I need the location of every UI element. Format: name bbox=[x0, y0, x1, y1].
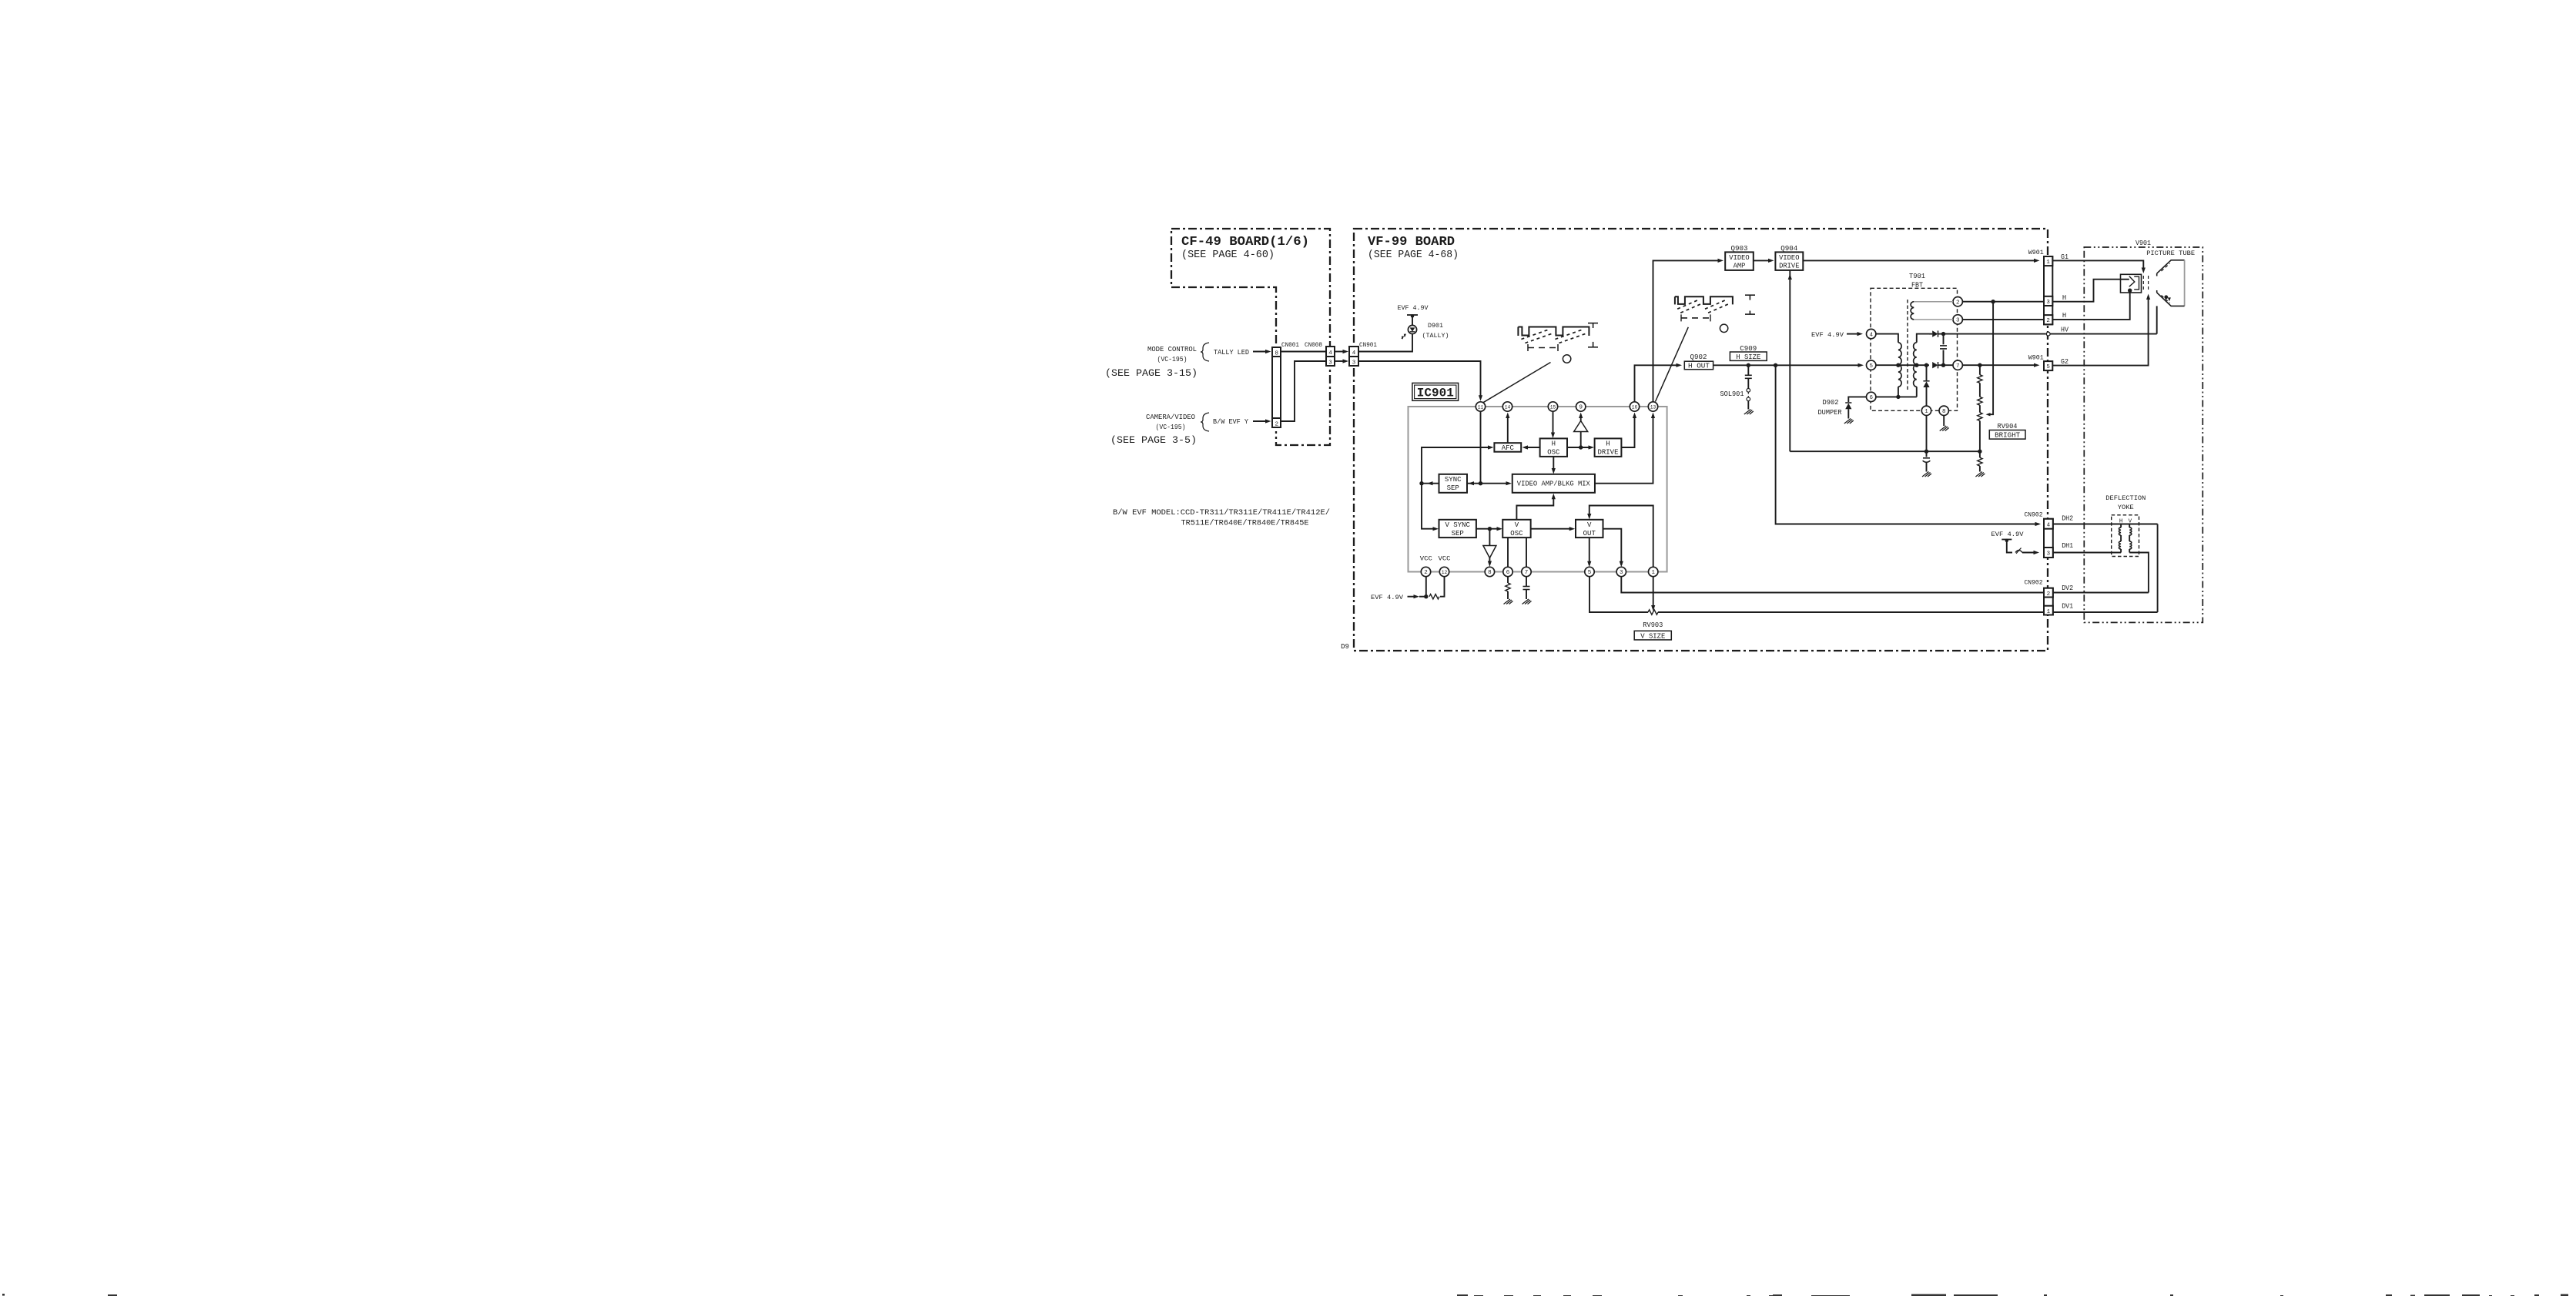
wire DH2 drop bbox=[1776, 365, 2039, 524]
diode D902 dumper bbox=[1845, 404, 1851, 410]
block Q902 H OUT bbox=[1684, 361, 1713, 370]
svg-text:H: H bbox=[2062, 312, 2066, 320]
svg-text:DEFLECTION: DEFLECTION bbox=[2105, 494, 2146, 502]
svg-text:W901: W901 bbox=[2028, 249, 2044, 256]
IC901 pin 11 (top) bbox=[1476, 402, 1485, 411]
block Q903 VIDEO AMP bbox=[1725, 252, 1754, 270]
wire winding2 top to HV diode bbox=[1917, 334, 1929, 343]
svg-text:(SEE PAGE 3-5): (SEE PAGE 3-5) bbox=[1110, 434, 1197, 446]
CRT cathode bbox=[2121, 279, 2129, 280]
wire H OSC to H DRIVE bbox=[1567, 447, 1591, 448]
wire pin5-pin7 line bbox=[1917, 364, 1929, 366]
svg-text:8: 8 bbox=[1275, 350, 1278, 357]
capacitor C (pin1) bbox=[1926, 451, 1928, 457]
wire H (pin2) from FBT pin3 bbox=[1962, 319, 2044, 320]
waveform sketch 1 amplitude bars bbox=[1588, 323, 1598, 324]
deflection yoke outline (dashed) bbox=[2112, 515, 2139, 557]
transformer pin 8 bbox=[1939, 406, 1948, 415]
svg-text:VIDEO AMP/BLKG MIX: VIDEO AMP/BLKG MIX bbox=[1517, 481, 1591, 488]
svg-text:V901: V901 bbox=[2136, 239, 2151, 247]
svg-text:2: 2 bbox=[1424, 570, 1428, 576]
CRT heater dashes bbox=[2142, 276, 2144, 292]
wire HV line bbox=[1944, 333, 2046, 335]
svg-text:(TALLY): (TALLY) bbox=[1422, 332, 1449, 340]
svg-text:DRIVE: DRIVE bbox=[1597, 449, 1618, 457]
connector W901 pin 5 bbox=[2044, 361, 2052, 370]
wire H OSC to AFC bbox=[1525, 447, 1540, 448]
wire winding2 bottom bbox=[1916, 387, 1918, 397]
svg-text:1: 1 bbox=[1924, 409, 1928, 415]
IC901 pin 14 (top) bbox=[1502, 402, 1512, 411]
wire G2 to CRT bbox=[2052, 296, 2148, 366]
svg-text:HV: HV bbox=[2061, 327, 2069, 334]
wire V OSC to pin 6 bbox=[1507, 537, 1509, 567]
connector W901 pin 1 bbox=[2044, 256, 2052, 266]
svg-text:3: 3 bbox=[1328, 360, 1332, 366]
svg-text:6: 6 bbox=[1869, 395, 1873, 401]
wire B/W EVF Y arrow bbox=[1253, 420, 1267, 422]
svg-text:(VC-195): (VC-195) bbox=[1157, 356, 1188, 363]
wire tap to winding 2 bbox=[1898, 364, 1917, 366]
connector CN902 pin 3 bbox=[2044, 548, 2053, 558]
block V OSC bbox=[1502, 520, 1530, 537]
svg-text:W901: W901 bbox=[2028, 354, 2044, 362]
block AFC bbox=[1494, 443, 1521, 452]
wire pin 7 to capacitor bbox=[1526, 577, 1527, 586]
ground (pin8) bbox=[1940, 426, 1949, 431]
transformer pin 1 bbox=[1921, 406, 1931, 415]
svg-text:AFC: AFC bbox=[1502, 444, 1515, 452]
wire pin 3 to DV2 bbox=[1621, 577, 2044, 593]
svg-text:IC901: IC901 bbox=[1417, 386, 1454, 400]
svg-text:H: H bbox=[2062, 294, 2066, 302]
waveform sketch 2 bbox=[1674, 296, 1676, 304]
svg-text:(SEE PAGE 4-68): (SEE PAGE 4-68) bbox=[1368, 249, 1459, 261]
wire V coil to DV2 bbox=[2129, 553, 2149, 593]
transformer pin 6 bbox=[1867, 392, 1876, 401]
svg-text:11: 11 bbox=[1478, 405, 1484, 410]
transformer pin 2 bbox=[1953, 297, 1962, 306]
wire resistor to ground (pin6) bbox=[1507, 591, 1509, 599]
svg-text:B/W EVF MODEL:CCD-TR311/TR311E: B/W EVF MODEL:CCD-TR311/TR311E/TR411E/TR… bbox=[1113, 508, 1330, 517]
svg-text:D9: D9 bbox=[1341, 643, 1349, 651]
wire resistor to pin 12 bbox=[1440, 577, 1445, 597]
amplifier triangle (pin 9) bbox=[1574, 421, 1588, 432]
svg-text:1: 1 bbox=[1651, 570, 1655, 576]
svg-text:CN001: CN001 bbox=[1281, 341, 1299, 349]
wire SYNC SEP left arrow bbox=[1422, 483, 1439, 484]
IC901 pin 5 (bottom) bbox=[1585, 567, 1594, 576]
wire CN008-4 to CN901-4 bbox=[1335, 351, 1344, 353]
block H OSC bbox=[1540, 438, 1567, 457]
wire CN901-4 to D901 bbox=[1358, 334, 1412, 352]
wire pin6 bus bbox=[1876, 396, 1917, 397]
svg-text:CF-49 BOARD(1/6): CF-49 BOARD(1/6) bbox=[1181, 235, 1309, 249]
svg-text:Q902: Q902 bbox=[1690, 353, 1707, 361]
svg-text:3: 3 bbox=[1620, 570, 1623, 576]
wire G1 to CRT bbox=[2052, 260, 2143, 270]
ground (SOL901) bbox=[1744, 410, 1754, 415]
wire H feedback bbox=[1988, 302, 1993, 415]
svg-text:MODE CONTROL: MODE CONTROL bbox=[1147, 346, 1197, 353]
svg-text:(SEE PAGE 4-60): (SEE PAGE 4-60) bbox=[1181, 249, 1275, 261]
brace for CAMERA/VIDEO bbox=[1201, 413, 1209, 431]
wire pin1 down bbox=[1926, 416, 1928, 452]
svg-text:8: 8 bbox=[1942, 409, 1946, 415]
svg-text:CN902: CN902 bbox=[2025, 579, 2043, 587]
svg-text:EVF 4.9V: EVF 4.9V bbox=[1398, 304, 1429, 312]
wire V OSC to VIDEO AMP bbox=[1516, 496, 1553, 520]
svg-text:(SEE PAGE 3-15): (SEE PAGE 3-15) bbox=[1105, 367, 1198, 379]
open circle HV crossing bbox=[2046, 332, 2050, 336]
pointer line IC pin11 to sketch 1 bbox=[1483, 363, 1551, 403]
wire junction to inv amp bbox=[1489, 529, 1490, 546]
svg-text:VF-99 BOARD: VF-99 BOARD bbox=[1368, 235, 1455, 249]
svg-text:TALLY LED: TALLY LED bbox=[1214, 349, 1249, 357]
connector W901 pin 3 bbox=[2044, 296, 2052, 306]
capacitor C909 bbox=[1745, 375, 1752, 378]
svg-text:DH1: DH1 bbox=[2062, 542, 2073, 550]
svg-text:SEP: SEP bbox=[1447, 484, 1459, 492]
wire CN901-3 to IC pin11 bbox=[1358, 361, 1481, 398]
wire primary bottom bbox=[1898, 387, 1899, 397]
CRT funnel bbox=[2157, 260, 2185, 273]
svg-text:3: 3 bbox=[2047, 551, 2051, 558]
box H SIZE bbox=[1730, 352, 1767, 360]
wire SOL901 to ground bbox=[1747, 401, 1749, 410]
wire amp to pin 9 bbox=[1580, 415, 1582, 421]
connector CN008 pin 3 bbox=[1326, 357, 1335, 366]
svg-text:AMP: AMP bbox=[1734, 263, 1746, 270]
svg-text:2: 2 bbox=[1956, 300, 1960, 306]
svg-text:4: 4 bbox=[1328, 350, 1332, 357]
ground (pin6) bbox=[1504, 599, 1513, 604]
svg-text:VIDEO: VIDEO bbox=[1729, 254, 1749, 262]
connector CN902 pin 4 bbox=[2044, 519, 2053, 529]
wire DH1 into yoke bbox=[2053, 552, 2121, 554]
CRT grid bracket bbox=[2134, 276, 2139, 290]
wire TALLY LED arrow bbox=[1253, 351, 1267, 353]
connector CN001 pin 2 bbox=[1272, 418, 1281, 427]
svg-text:3: 3 bbox=[1956, 318, 1960, 324]
waveform sketch 2 amplitude bars bbox=[1745, 294, 1755, 296]
wire CN001-8 to CN008-4 bbox=[1281, 351, 1326, 353]
svg-text:V SYNC: V SYNC bbox=[1445, 521, 1470, 529]
svg-text:CAMERA/VIDEO: CAMERA/VIDEO bbox=[1146, 414, 1195, 421]
primary winding left bbox=[1898, 343, 1901, 387]
diode D901 LED bbox=[1408, 325, 1416, 333]
secondary winding bbox=[1911, 302, 1914, 320]
wire Q903 to Q904 bbox=[1754, 260, 1771, 261]
wire supply to D901 bbox=[1412, 315, 1413, 326]
svg-text:OSC: OSC bbox=[1510, 530, 1523, 537]
IC901 pin 7 (bottom) bbox=[1522, 567, 1531, 576]
primary winding right bbox=[1914, 343, 1917, 387]
diode D3 (vertical) bbox=[1926, 365, 1928, 381]
capacitor pin7 bbox=[1523, 587, 1530, 590]
wire H DRIVE to pin16 bbox=[1621, 415, 1634, 448]
callout circle sketch 1 bbox=[1563, 355, 1570, 363]
transformer pin 7 bbox=[1953, 360, 1962, 370]
wire V SYNC SEP to V OSC bbox=[1476, 528, 1499, 530]
pointer line IC pin13 to sketch 2 bbox=[1656, 327, 1689, 402]
box BRIGHT bbox=[1989, 430, 2025, 440]
svg-text:PICTURE TUBE: PICTURE TUBE bbox=[2146, 249, 2195, 257]
svg-text:CN901: CN901 bbox=[1359, 341, 1377, 349]
wire EVF 4.9V to VCC bbox=[1408, 596, 1416, 598]
wire RV904 to node bbox=[1979, 421, 1981, 452]
wire pin6 to D902 bbox=[1848, 397, 1866, 402]
IC901 outline bbox=[1409, 407, 1667, 572]
connector CN001 body bbox=[1272, 347, 1281, 427]
transformer pin 5 bbox=[1867, 360, 1876, 370]
svg-text:BRIGHT: BRIGHT bbox=[1995, 432, 2020, 440]
wire V OSC to pin 7 bbox=[1526, 537, 1527, 567]
svg-text:EVF 4.9V: EVF 4.9V bbox=[1991, 531, 2025, 538]
svg-text:OUT: OUT bbox=[1583, 530, 1596, 537]
block SYNC SEP bbox=[1439, 474, 1468, 493]
svg-text:SYNC: SYNC bbox=[1445, 476, 1462, 484]
connector CN902 pin 1 bbox=[2044, 606, 2053, 615]
waveform sketch 1 measure line bbox=[1528, 347, 1558, 349]
board outline VF-99 (dash-dot) bbox=[1354, 229, 2048, 651]
svg-text:DH2: DH2 bbox=[2062, 515, 2073, 523]
waveform sketch 1 bbox=[1517, 327, 1519, 337]
wire V OSC to V OUT bbox=[1531, 528, 1572, 530]
svg-text:3: 3 bbox=[2046, 300, 2050, 306]
svg-text:SOL901: SOL901 bbox=[1720, 390, 1744, 398]
yoke H coil bbox=[2119, 527, 2122, 535]
CRT base box bbox=[2121, 274, 2142, 293]
svg-text:H SIZE: H SIZE bbox=[1736, 353, 1760, 361]
IC901 pin 12 (bottom) bbox=[1439, 567, 1449, 576]
svg-text:4: 4 bbox=[1869, 332, 1873, 338]
svg-text:DUMPER: DUMPER bbox=[1818, 409, 1843, 417]
wire DV1 vertical bbox=[2157, 524, 2159, 613]
IC901 pin 13 (top) bbox=[1648, 402, 1657, 411]
wire RV903 to CN902 pin1 (DV1) bbox=[1658, 611, 2044, 613]
wire Q904 to W901 pin1 (G1) bbox=[1803, 260, 2035, 261]
callout circle sketch 2 bbox=[1720, 324, 1727, 332]
svg-text:12: 12 bbox=[1442, 570, 1448, 575]
diode D2 (G2) bbox=[1932, 362, 1938, 368]
block VIDEO AMP/BLKG MIX bbox=[1512, 474, 1595, 493]
svg-text:15: 15 bbox=[1550, 405, 1556, 410]
connector CN901 pin 4 bbox=[1349, 347, 1358, 357]
svg-text:4: 4 bbox=[2047, 522, 2051, 528]
svg-text:(VC-195): (VC-195) bbox=[1156, 424, 1186, 431]
svg-text:RV904: RV904 bbox=[1998, 423, 2018, 430]
svg-text:VIDEO: VIDEO bbox=[1779, 254, 1799, 262]
wire junction to C909 cap bbox=[1747, 365, 1749, 375]
ground (pin1 cap) bbox=[1922, 472, 1931, 477]
wire DH2 into yoke bbox=[2053, 524, 2158, 525]
ground (RV904) bbox=[1975, 472, 1985, 477]
IC901 pin 6 (bottom) bbox=[1503, 567, 1512, 576]
wire node to SYNC SEP bbox=[1467, 483, 1481, 484]
wire DV1 bbox=[2053, 611, 2158, 613]
wire secondary to pin2 bbox=[1914, 301, 1953, 303]
IC901 pin 1 (bottom) bbox=[1649, 567, 1658, 576]
svg-text:7: 7 bbox=[1956, 363, 1960, 370]
wire pin4 to primary bbox=[1876, 334, 1898, 343]
wire pin8 to ground bbox=[1943, 416, 1945, 427]
block H DRIVE bbox=[1595, 438, 1622, 457]
wire H OSC to VIDEO AMP bbox=[1553, 457, 1554, 471]
wire pin1 to V OUT top bbox=[1589, 506, 1653, 568]
diode D1 (HV rectifier) bbox=[1932, 330, 1938, 337]
wire AFC to pin14 bbox=[1507, 415, 1509, 444]
svg-text:5: 5 bbox=[1869, 363, 1873, 370]
wire pin7 to G2 net bbox=[1962, 364, 2035, 366]
ground (pin7) bbox=[1522, 599, 1532, 604]
yoke V coil bbox=[2129, 527, 2132, 535]
svg-text:D902: D902 bbox=[1823, 399, 1839, 407]
wire H pin2 to CRT bbox=[2052, 290, 2129, 320]
wire capacitor to ground (pin7) bbox=[1526, 590, 1527, 599]
wire node to V SYNC SEP bbox=[1422, 484, 1435, 529]
wire Q904 collector feed bbox=[1789, 270, 1790, 451]
inverter triangle (pin 8) bbox=[1483, 546, 1496, 558]
box V SIZE bbox=[1634, 631, 1671, 640]
connector CN902 body (lower) bbox=[2044, 588, 2053, 615]
svg-text:13: 13 bbox=[1650, 405, 1656, 410]
connector W901 body bbox=[2044, 256, 2052, 324]
svg-text:9: 9 bbox=[1579, 405, 1583, 411]
transformer pin 3 bbox=[1953, 315, 1962, 324]
svg-text:H OUT: H OUT bbox=[1688, 363, 1710, 370]
wire inv amp to pin 8 bbox=[1489, 558, 1490, 564]
svg-text:VCC: VCC bbox=[1439, 555, 1451, 563]
ground (D902) bbox=[1844, 419, 1854, 424]
power EVF 4.9V bar (D901) bbox=[1407, 314, 1418, 316]
waveform sketch 2 measure line bbox=[1681, 317, 1710, 319]
IC901 pin 3 (bottom) bbox=[1616, 567, 1626, 576]
variable resistor RV903 bbox=[1648, 610, 1658, 615]
wire EVF to FBT pin4 bbox=[1847, 333, 1859, 335]
svg-text:RV903: RV903 bbox=[1643, 621, 1663, 629]
svg-text:CN902: CN902 bbox=[2025, 511, 2043, 519]
wire node to VIDEO AMP bbox=[1481, 483, 1509, 484]
block Q904 VIDEO DRIVE bbox=[1775, 252, 1803, 270]
svg-text:2: 2 bbox=[2046, 318, 2050, 324]
board outline CF-49 (dash-dot) bbox=[1171, 229, 1330, 445]
svg-text:OSC: OSC bbox=[1547, 449, 1560, 457]
power EVF 4.9V bar (CN902) bbox=[2002, 539, 2012, 541]
svg-text:DRIVE: DRIVE bbox=[1779, 263, 1799, 270]
junction at damper bbox=[1924, 363, 1928, 367]
IC901 label box bbox=[1412, 383, 1459, 400]
svg-text:6: 6 bbox=[1506, 570, 1510, 576]
svg-text:V SIZE: V SIZE bbox=[1640, 632, 1665, 640]
svg-text:B/W EVF Y: B/W EVF Y bbox=[1213, 418, 1249, 426]
wire DV2 bbox=[2053, 592, 2149, 594]
svg-text:V: V bbox=[1515, 521, 1519, 529]
IC901 pin 16 (top) bbox=[1630, 402, 1639, 411]
solder link SOL901 bbox=[1747, 389, 1750, 393]
wire C909 to SOL901 bbox=[1747, 379, 1749, 389]
svg-text:H: H bbox=[1606, 440, 1610, 448]
connector CN008 pin 4 bbox=[1326, 347, 1335, 357]
svg-text:G2: G2 bbox=[2061, 358, 2069, 366]
svg-text:CN008: CN008 bbox=[1305, 341, 1322, 349]
wire EVF to DH1 bbox=[2007, 540, 2012, 553]
CRT inner dashed diagonal (top) bbox=[2162, 263, 2170, 271]
resistor pin6 bbox=[1506, 583, 1510, 591]
svg-text:DV2: DV2 bbox=[2062, 584, 2073, 592]
svg-text:1: 1 bbox=[2047, 609, 2051, 615]
svg-text:T901: T901 bbox=[1909, 273, 1925, 280]
wire CN008-3 to CN901-3 bbox=[1335, 360, 1344, 362]
wire pin13 to video line bbox=[1653, 260, 1721, 401]
block V SYNC SEP bbox=[1439, 520, 1476, 537]
svg-text:YOKE: YOKE bbox=[2118, 504, 2134, 511]
IC901 pin 8 (bottom) bbox=[1485, 567, 1494, 576]
block V OUT bbox=[1576, 520, 1603, 537]
wire pin15 to H OSC bbox=[1553, 411, 1554, 435]
variable resistor RV904 bbox=[1979, 405, 1981, 413]
IC901 pin 15 (top) bbox=[1548, 402, 1557, 411]
transformer pin 4 bbox=[1867, 329, 1876, 338]
transformer T901 outline (dashed) bbox=[1871, 288, 1958, 410]
wire to ground (RV904) bbox=[1979, 466, 1981, 471]
capacitor HV filter bbox=[1943, 334, 1945, 345]
wire H OUT to FBT pin5 bbox=[1713, 364, 1860, 366]
svg-text:V: V bbox=[1587, 521, 1592, 529]
tube V901 outline (dash-dot-dot) bbox=[2084, 247, 2202, 622]
page footer remnants (cropped text tops) bbox=[2, 1294, 5, 1296]
wire SYNC SEP out up to AFC bbox=[1422, 447, 1491, 484]
wire H (pin3) from FBT bbox=[1962, 301, 2044, 303]
svg-text:14: 14 bbox=[1505, 405, 1511, 410]
wire V OUT to pin 3 bbox=[1603, 529, 1622, 565]
svg-text:5: 5 bbox=[2046, 364, 2050, 370]
IC901 pin 2 (bottom) bbox=[1421, 567, 1430, 576]
connector CN902 body (upper) bbox=[2044, 519, 2053, 558]
svg-text:SEP: SEP bbox=[1452, 530, 1464, 537]
svg-text:16: 16 bbox=[1632, 405, 1638, 410]
connector W901 pin 2 bbox=[2044, 315, 2052, 324]
svg-text:VCC: VCC bbox=[1420, 555, 1432, 563]
wire HV to CRT bbox=[2050, 333, 2157, 335]
svg-text:D901: D901 bbox=[1428, 322, 1443, 330]
wire CN001-2 to CN008-3 bbox=[1281, 361, 1326, 421]
connector CN001 pin 8 bbox=[1272, 347, 1281, 357]
wire pin 1 wiper to RV903 bbox=[1653, 577, 1654, 609]
connector CN901 pin 3 bbox=[1349, 357, 1358, 366]
IC901 pin 9 (top) bbox=[1576, 402, 1586, 411]
svg-text:DV1: DV1 bbox=[2062, 603, 2073, 611]
junction DH2 tap bbox=[1774, 363, 1777, 367]
wire H pin3 to CRT bbox=[2052, 280, 2120, 302]
wire pin5 tap bbox=[1876, 364, 1898, 366]
svg-text:H: H bbox=[1552, 440, 1556, 448]
svg-text:TR511E/TR640E/TR840E/TR845E: TR511E/TR640E/TR840E/TR845E bbox=[1181, 519, 1309, 528]
wire pin 5 to DV1 bbox=[1589, 577, 1648, 612]
brace for MODE CONTROL bbox=[1201, 343, 1209, 361]
svg-text:3: 3 bbox=[1352, 360, 1356, 366]
wire pin 6 to resistor bbox=[1507, 577, 1509, 583]
resistor RV904 chain R2 bbox=[1979, 383, 1981, 397]
resistor RV904 chain R1 bbox=[1979, 365, 1981, 375]
wire VCC node to pin 2 bbox=[1425, 577, 1427, 597]
svg-text:4: 4 bbox=[1352, 350, 1356, 357]
wire VIDEO AMP to pin13 bbox=[1595, 415, 1653, 484]
svg-text:2: 2 bbox=[2047, 591, 2051, 598]
ferrite bead DH1 bbox=[2015, 551, 2022, 553]
wire pin11 to video node bbox=[1480, 411, 1482, 484]
resistor VCC bbox=[1429, 594, 1439, 599]
